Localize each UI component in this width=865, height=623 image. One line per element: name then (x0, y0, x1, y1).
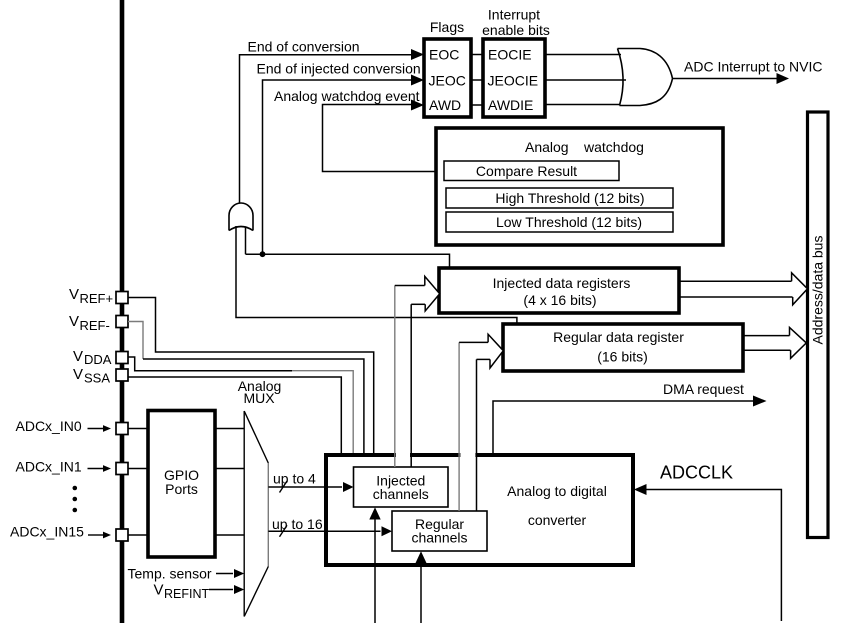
svg-text:converter: converter (528, 512, 587, 528)
open arrowhead injected to bus (792, 273, 808, 305)
left boundary thick bar (120, 0, 125, 623)
wire regular trigger (420, 564, 422, 623)
svg-text:ADCx_IN15: ADCx_IN15 (10, 523, 84, 539)
open arrowhead into regular data register (488, 334, 503, 368)
analog MUX trapezoid (243, 411, 245, 617)
pin VREF- (116, 316, 128, 328)
wire pin IN1 to GPIO (128, 468, 148, 470)
slash up to 4 (280, 481, 288, 493)
svg-text:V: V (73, 366, 83, 383)
svg-text:REF+: REF+ (80, 291, 114, 306)
svg-text:Analog to digital: Analog to digital (507, 483, 607, 499)
svg-text:ADCx_IN1: ADCx_IN1 (16, 458, 82, 474)
wire GPIO to MUX row15 (215, 534, 244, 536)
arrowhead trigger into regular channels (415, 551, 426, 563)
white gap in ADC top edge for injected channel bus (396, 452, 410, 458)
wire dome gate right output to injected register wire (245, 226, 247, 254)
wire dome gate left output to regular data register (236, 226, 517, 324)
svg-text:AWDIE: AWDIE (488, 97, 533, 113)
injected data registers box (439, 268, 679, 313)
svg-text:Temp. sensor: Temp. sensor (128, 565, 212, 581)
analog watchdog box (436, 128, 723, 245)
wire injected trigger (374, 520, 376, 623)
svg-text:JEOC: JEOC (429, 73, 466, 89)
svg-text:EOCIE: EOCIE (488, 47, 532, 63)
svg-text:V: V (154, 582, 164, 599)
junction dot (260, 251, 266, 257)
svg-text:JEOCIE: JEOCIE (488, 73, 539, 89)
svg-text:End of conversion: End of conversion (248, 38, 360, 54)
svg-text:ADC Interrupt to NVIC: ADC Interrupt to NVIC (684, 59, 823, 75)
wire VDDA gray segment (292, 371, 353, 455)
wire AWD flag to AWDIE (471, 104, 483, 106)
wire End of conversion (240, 55, 412, 203)
svg-text:End of injected conversion: End of injected conversion (257, 60, 421, 76)
svg-text:Regular data register: Regular data register (553, 329, 684, 345)
pin VSSA (116, 369, 128, 381)
interrupt enable bits box (483, 39, 545, 117)
svg-text:Analog: Analog (525, 139, 569, 155)
svg-text:V: V (73, 348, 83, 365)
arrowhead EOC into flags box (411, 49, 424, 60)
pin ADCx_IN0 (116, 423, 128, 435)
svg-text:Ports: Ports (165, 481, 198, 497)
svg-text:Address/data bus: Address/data bus (810, 236, 826, 345)
arrowhead ADCCLK into ADC (634, 484, 647, 495)
ADC converter box (326, 455, 633, 565)
svg-text:EOC: EOC (429, 47, 459, 63)
svg-text:SSA: SSA (84, 370, 110, 385)
wire VDDA (128, 357, 292, 371)
arrow ADCx_IN15 (88, 534, 104, 536)
ellipsis dots (73, 486, 78, 491)
arrow temp sensor to MUX (216, 573, 233, 575)
svg-text:Injected data registers: Injected data registers (493, 275, 631, 291)
arrow VREFINT to MUX (209, 589, 233, 591)
wire injected bus bottom tail (411, 303, 425, 305)
svg-text:up to 16: up to 16 (272, 516, 323, 532)
wire EOC flag to EOCIE (471, 54, 483, 56)
wire injected channel bus left line (394, 286, 396, 468)
regular channels box (392, 511, 487, 551)
wire junction to injected data registers top (246, 254, 450, 268)
wire EOCIE to OR gate (545, 54, 621, 56)
svg-text:V: V (69, 286, 79, 303)
GPIO ports box (148, 411, 215, 558)
arrowhead into regular channels (382, 526, 393, 536)
svg-text:watchdog: watchdog (583, 139, 644, 155)
wire VREF- gray segment (128, 322, 143, 360)
svg-text:enable bits: enable bits (482, 22, 550, 38)
svg-text:REF-: REF- (80, 318, 110, 333)
wire ADCCLK (647, 490, 782, 622)
wire ADC interrupt to NVIC (673, 78, 778, 80)
svg-text:REFINT: REFINT (164, 587, 210, 601)
wire Analog watchdog event (323, 105, 445, 172)
svg-text:Compare Result: Compare Result (476, 163, 577, 179)
wire regular channel bus left line (458, 342, 460, 511)
slash up to 16 (280, 525, 288, 537)
arrow ADCx_IN0 (88, 428, 105, 430)
arrowhead interrupt to NVIC (777, 73, 790, 84)
address/data bus bar (808, 112, 829, 538)
wire regular bus top tail (459, 341, 488, 343)
wire regular channel bus right line (476, 359, 478, 511)
svg-text:MUX: MUX (243, 390, 275, 406)
wire End of injected conversion (263, 80, 412, 254)
svg-text:(16 bits): (16 bits) (597, 349, 648, 365)
svg-text:DMA request: DMA request (663, 381, 744, 397)
bus wire injected registers to bus (679, 280, 792, 282)
svg-text:Flags: Flags (430, 19, 464, 35)
low threshold box (446, 212, 673, 232)
pin ADCx_IN15 (116, 529, 128, 541)
wire JEOCIE to OR gate (545, 79, 626, 81)
wire JEOC flag to JEOCIE (471, 79, 483, 81)
arrowhead trigger into injected channels (369, 507, 380, 519)
wire VREF+ (128, 298, 374, 456)
svg-text:AWD: AWD (429, 97, 461, 113)
regular data register box (503, 324, 743, 371)
svg-text:V: V (69, 313, 79, 330)
arrow ADCx_IN1 (88, 468, 105, 470)
svg-text:ADCx_IN0: ADCx_IN0 (16, 418, 82, 434)
open arrowhead into injected data registers (425, 276, 440, 311)
wire GPIO to MUX row1 (215, 468, 244, 470)
svg-text:up to 4: up to 4 (273, 471, 316, 487)
flags box (424, 39, 471, 117)
wire AWDIE to OR gate (545, 104, 620, 106)
arrowhead JEOC into flags box (411, 75, 424, 86)
pin VDDA (116, 352, 128, 364)
wire VSSA (128, 377, 341, 455)
wire injected channel bus right line (410, 304, 412, 467)
compare result box (444, 161, 619, 181)
wire GPIO to MUX row0 (215, 428, 244, 430)
svg-text:channels: channels (411, 530, 467, 546)
open arrowhead regular to bus (790, 327, 807, 358)
svg-text:Analog watchdog event: Analog watchdog event (274, 88, 420, 104)
svg-text:DDA: DDA (84, 352, 112, 367)
svg-text:Low Threshold (12 bits): Low Threshold (12 bits) (496, 214, 642, 230)
pin ADCx_IN1 (116, 463, 128, 475)
arrowhead AWD into flags box (411, 100, 424, 111)
injected channels box (354, 467, 449, 507)
wire pin IN15 to GPIO (128, 534, 148, 536)
wire VREF- (143, 359, 364, 455)
bus wire regular register to bus (743, 335, 790, 337)
high threshold box (446, 188, 673, 208)
wire pin IN0 to GPIO (128, 428, 148, 430)
arrowhead DMA request (753, 396, 767, 407)
wire injected bus top tail (395, 285, 425, 287)
pin VREF+ (116, 292, 128, 304)
svg-text:ADCCLK: ADCCLK (660, 463, 733, 483)
dome or-gate EOC combiner (229, 203, 253, 231)
wire DMA request (493, 401, 753, 455)
wire regular bus bottom tail (477, 358, 491, 360)
svg-text:(4 x 16 bits): (4 x 16 bits) (523, 292, 596, 308)
wire MUX to injected channels (268, 486, 342, 488)
svg-text:High Threshold (12 bits): High Threshold (12 bits) (495, 190, 644, 206)
svg-text:channels: channels (373, 486, 429, 502)
white gap in ADC top edge for regular channel bus (460, 452, 475, 458)
or-gate interrupt (618, 49, 673, 106)
wire MUX to regular channels (268, 530, 380, 532)
svg-text:Interrupt: Interrupt (488, 7, 540, 23)
arrowhead into injected channels (343, 482, 354, 492)
